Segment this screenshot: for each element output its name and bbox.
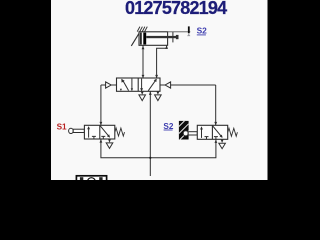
right box diagonal path (100, 126, 109, 137)
wire S1 supply to manifold (101, 139, 216, 158)
valve V1 5/2 impulse valve (101, 75, 216, 101)
roller (183, 131, 188, 136)
supply arrow (215, 140, 218, 143)
piston rod (146, 36, 178, 38)
exhaust arrow (108, 139, 111, 142)
exhaust arrow (221, 140, 224, 143)
mount diagonal leg (131, 32, 139, 46)
push button knob (69, 128, 74, 133)
right box up diagonal path (148, 79, 156, 91)
piston bar left (140, 33, 142, 45)
return spring (228, 128, 238, 136)
port 4 arrow (142, 75, 145, 78)
rod tip step (176, 35, 179, 39)
wire valve V1 supply drop (149, 91, 151, 176)
exhaust 3 arrow (157, 92, 160, 95)
blocked port T right (101, 136, 105, 139)
return spring (115, 128, 125, 136)
port 2 arrow (155, 75, 158, 78)
valve body (84, 125, 114, 139)
right box down path (141, 79, 143, 91)
exhaust 5 arrow (141, 92, 144, 95)
sensor ruler line (168, 31, 191, 33)
valve S2 3/2 roller cam (179, 121, 238, 149)
right box diagonal path (213, 126, 222, 137)
mount hatching (137, 27, 147, 32)
cylinder A (top) (131, 27, 190, 46)
junction dot (149, 157, 151, 159)
background black bars (0, 0, 320, 180)
left box flow arrow (201, 127, 203, 138)
S2 tick (188, 26, 190, 33)
pilot right (160, 84, 165, 86)
exhaust triangle (106, 143, 113, 149)
cam block (179, 121, 189, 140)
svg-text:S1: S1 (57, 122, 67, 131)
blocked port T left (205, 137, 209, 140)
push button stem (73, 129, 84, 132)
piston bar right (magnet) (143, 33, 146, 45)
blocked port T right (214, 137, 218, 140)
roller stem (188, 132, 197, 135)
valve S1 3/2 push button (69, 125, 125, 148)
blocked port T left (92, 136, 96, 139)
pilot left (101, 84, 106, 86)
box divider (211, 125, 213, 139)
exhaust 5 triangle (139, 95, 146, 101)
valve body (197, 125, 227, 139)
wire pilot right to valve S2 (214, 85, 217, 125)
wire pilot left to valve S1 (100, 85, 103, 125)
exhaust triangle (219, 143, 226, 149)
svg-text:S2: S2 (163, 122, 173, 131)
valve body (117, 78, 161, 91)
svg-text:01275782194: 01275782194 (125, 0, 227, 18)
rod flag (172, 32, 174, 43)
svg-text:S2: S2 (197, 26, 208, 36)
wire cylinder right port to valve port 2 (157, 45, 168, 78)
white schematic canvas (51, 0, 268, 180)
left box crossed path (122, 80, 128, 91)
wire cylinder left port to valve port 4 (142, 46, 145, 79)
compressor (76, 176, 106, 186)
cam block hatch (179, 121, 189, 140)
supply arrow (100, 139, 103, 142)
left box flow arrow (88, 127, 90, 138)
S2 pointer (187, 34, 190, 37)
left box straight path (131, 79, 133, 91)
box divider (137, 78, 139, 91)
cylinder body (139, 32, 168, 46)
supply 1 arrow (149, 92, 152, 95)
exhaust 3 triangle (155, 95, 162, 101)
box divider (99, 125, 101, 139)
sensor mark S2 (top right) (187, 26, 207, 37)
